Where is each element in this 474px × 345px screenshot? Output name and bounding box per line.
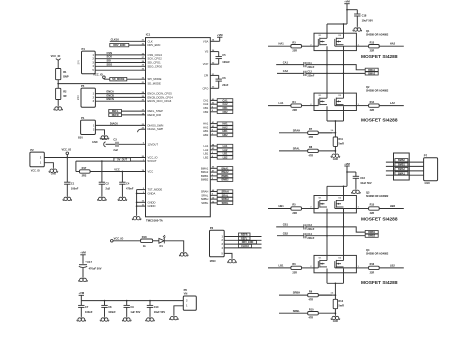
svg-text:220nF: 220nF (307, 66, 314, 69)
svg-text:SRAH: SRAH (221, 190, 228, 193)
svg-text:P3: P3 (210, 226, 214, 230)
wire 5VOUT from IC (76, 160, 146, 162)
svg-text:SCK: SCK (107, 55, 113, 59)
svg-text:CA2: CA2 (283, 69, 289, 73)
svg-text:C10: C10 (154, 305, 159, 309)
svg-text:GND: GND (425, 182, 431, 185)
svg-text:C9: C9 (130, 305, 134, 309)
svg-text:LA2: LA2 (204, 148, 209, 152)
svg-text:GND: GND (102, 138, 108, 141)
svg-text:HB2: HB2 (222, 134, 228, 137)
capacitor C7 100nF on VM rail (80, 301, 82, 306)
wire HB2 net (379, 208, 404, 210)
svg-text:47R: 47R (309, 317, 314, 320)
net label REFR boxed wire (108, 114, 145, 116)
svg-text:22R: 22R (370, 109, 375, 112)
svg-text:CB1: CB1 (283, 223, 289, 227)
svg-text:R13: R13 (370, 41, 375, 44)
wire TST_MODE and ground pins to GND (137, 189, 146, 191)
svg-text:CPI: CPI (204, 73, 209, 77)
transistor Q2 low-side dual MOSFET box (314, 93, 356, 110)
svg-text:SRBL: SRBL (201, 201, 209, 205)
svg-text:VCC_IO: VCC_IO (31, 169, 40, 172)
resistor R9 47R (308, 293, 319, 296)
wire P3 pin 4 CLK16 (224, 247, 261, 249)
wire bridge output verticals A (326, 46, 328, 98)
svg-text:REFR: REFR (112, 114, 119, 117)
svg-text:CA1: CA1 (283, 60, 289, 64)
wire P2 pin1 to ground (44, 163, 53, 168)
wire SRBL sense line (279, 312, 308, 314)
ground sense B (331, 315, 340, 320)
svg-text:R12: R12 (339, 300, 344, 303)
power +VM at VSA pin (210, 40, 219, 42)
svg-text:22R: 22R (292, 50, 297, 53)
resistor R1 DNP (56, 69, 61, 80)
svg-text:R14: R14 (370, 101, 375, 104)
svg-text:P5: P5 (81, 84, 85, 88)
svg-text:D1: D1 (160, 244, 164, 248)
power +VM above C17 (80, 254, 85, 256)
svg-text:22R: 22R (292, 212, 297, 215)
wire P4 pin 5 aux (95, 69, 145, 71)
wire P5 pin 1 ENCA (95, 93, 145, 95)
svg-text:BMA1: BMA1 (398, 172, 405, 175)
svg-text:SDO: SDO (107, 62, 113, 66)
svg-text:ENCN_DCO_CFG6: ENCN_DCO_CFG6 (148, 99, 172, 103)
svg-text:+VM: +VM (344, 162, 350, 166)
svg-text:REFR_DIR: REFR_DIR (148, 113, 161, 117)
wire P5 pin 2 ENCB (95, 96, 145, 98)
svg-text:C4: C4 (126, 181, 130, 185)
svg-text:VM: VM (184, 292, 188, 295)
svg-text:R1: R1 (63, 70, 67, 74)
svg-text:SRBH: SRBH (221, 198, 228, 201)
svg-text:22R: 22R (370, 271, 375, 274)
svg-text:47R: 47R (309, 154, 314, 157)
svg-text:C5: C5 (222, 53, 226, 57)
svg-text:220nF: 220nF (307, 228, 314, 231)
svg-text:REFL: REFL (112, 110, 119, 113)
svg-text:LB1: LB1 (204, 152, 209, 156)
wire low-side sources merge A (326, 106, 328, 121)
wire gate HA1 into box (314, 45, 318, 47)
wire bridge output verticals B (326, 209, 328, 261)
wire motor BMB1 to P7 pin 2 (386, 165, 424, 167)
ground IC (132, 215, 141, 220)
svg-text:P7: P7 (424, 153, 428, 157)
svg-text:BMB1: BMB1 (201, 174, 209, 178)
resistor R3 22R (291, 45, 302, 48)
svg-text:MOSFET SI4288: MOSFET SI4288 (361, 118, 398, 124)
svg-text:MOSFET SI4288: MOSFET SI4288 (361, 217, 398, 223)
svg-text:SI4288 OR AO4882: SI4288 OR AO4882 (366, 34, 389, 37)
svg-text:BMA1: BMA1 (201, 166, 209, 170)
svg-text:BMB1: BMB1 (368, 231, 375, 234)
wire gate LB1 into box (314, 267, 318, 269)
net label CLK16 wire to CLK pin (110, 40, 146, 42)
svg-text:SI4288 OR AO4882: SI4288 OR AO4882 (366, 253, 389, 256)
svg-text:C3: C3 (113, 138, 117, 142)
wire gate LA1 into box (314, 105, 318, 107)
svg-text:R11: R11 (339, 138, 344, 141)
svg-text:BMB2: BMB2 (398, 159, 405, 162)
svg-text:BMB2: BMB2 (221, 179, 229, 182)
ground sense A (331, 153, 340, 158)
svg-text:R18: R18 (142, 235, 147, 239)
wire P4 pin 4 SDO (95, 65, 145, 67)
svg-text:5V_OUT: 5V_OUT (117, 158, 127, 161)
svg-text:SRBL: SRBL (222, 202, 229, 205)
transistor Q1 high-side dual MOSFET box (314, 33, 356, 50)
svg-text:LA2: LA2 (390, 101, 395, 105)
svg-text:SRAH: SRAH (201, 190, 209, 194)
wire LB1 gate line (268, 267, 291, 269)
svg-text:SPI: SPI (78, 60, 81, 64)
svg-text:REFR: REFR (241, 234, 248, 237)
resistor R10 47R (308, 312, 319, 315)
svg-text:ENCB_DCEN_CFG4: ENCB_DCEN_CFG4 (148, 95, 174, 99)
net label DRV_ENN boxed on DRV_ENN pin wire (110, 44, 146, 46)
wire P3 pin 1 REFR (224, 236, 261, 238)
svg-text:CLK16: CLK16 (111, 37, 120, 41)
svg-text:BMA2: BMA2 (201, 170, 209, 174)
svg-text:CB2: CB2 (222, 111, 228, 114)
wire gate HB1 into box (314, 208, 318, 210)
wire CA1 line to BMA1 (306, 65, 365, 70)
svg-text:LB1: LB1 (279, 263, 284, 267)
svg-text:LB2: LB2 (223, 156, 228, 159)
transistor Q3 high-side dual MOSFET box (314, 196, 356, 213)
wire HA1 gate line (268, 45, 291, 47)
svg-text:VCC: VCC (114, 167, 120, 171)
capacitor C1 100nF on VCC_IO (66, 158, 68, 183)
connector P3 misc header (210, 230, 225, 257)
svg-text:22R: 22R (292, 271, 297, 274)
svg-text:ENCA: ENCA (107, 90, 114, 94)
svg-text:SDI: SDI (107, 59, 112, 63)
svg-text:SRBH: SRBH (201, 197, 209, 201)
svg-text:VCC_IO: VCC_IO (51, 54, 61, 58)
svg-text:SRAL: SRAL (201, 193, 209, 197)
svg-text:5VOUT: 5VOUT (148, 159, 157, 163)
capacitor C5 100nF between VS and VCP (210, 51, 218, 53)
svg-text:100nF: 100nF (222, 60, 230, 64)
capacitor C12 220nF bootstrap (277, 72, 304, 74)
svg-text:SI4288 OR AO4882: SI4288 OR AO4882 (366, 195, 389, 198)
capacitor C10 10uF 50V on VM rail (149, 300, 151, 302)
wire SRAL sense line (279, 150, 308, 152)
net labels on IC right pins (210, 99, 217, 101)
svg-text:SDO_CFG0: SDO_CFG0 (148, 64, 163, 68)
connector P5 encoder header (81, 88, 95, 107)
power +VM bridge B top (344, 165, 349, 167)
svg-text:CA1: CA1 (222, 99, 228, 102)
svg-text:P1: P1 (81, 116, 85, 120)
svg-text:22R: 22R (370, 212, 375, 215)
svg-text:DIAG0: DIAG0 (110, 121, 118, 125)
svg-text:GNDD: GNDD (148, 200, 156, 204)
svg-text:CB2: CB2 (203, 110, 209, 114)
svg-text:GND: GND (333, 320, 339, 323)
wire P5 pin 3 ENCN (95, 100, 145, 102)
wire VCC to IC (90, 171, 145, 173)
svg-text:47R: 47R (309, 299, 314, 302)
connector P6 VM power input (183, 296, 196, 310)
wire HB1 gate line (268, 208, 291, 210)
svg-text:C2: C2 (106, 181, 110, 185)
svg-text:CLK: CLK (148, 39, 153, 43)
svg-text:TMC5160-TA: TMC5160-TA (146, 218, 163, 222)
resistor R15 22R gate HB2 (356, 208, 368, 210)
svg-text:LB2: LB2 (204, 155, 209, 159)
svg-text:BMB1: BMB1 (221, 175, 229, 178)
wire P1 pin1 DIAG0 to IC (95, 124, 145, 126)
svg-text:+VM: +VM (217, 33, 223, 37)
LED D1 (153, 240, 160, 242)
connector P1 button (81, 120, 96, 134)
wire P4 pin 2 SCK (95, 58, 145, 60)
svg-text:GNDD: GNDD (148, 204, 156, 208)
svg-text:SD_MODE: SD_MODE (112, 78, 125, 81)
svg-text:ENCN: ENCN (107, 97, 114, 101)
capacitor C16 10uF 50V (347, 171, 356, 173)
wire P1 pin2 to ground (95, 130, 104, 135)
svg-text:CA2: CA2 (203, 102, 209, 106)
connector P7 motor output (424, 158, 438, 181)
svg-text:HB2: HB2 (390, 204, 396, 208)
svg-text:BMA1: BMA1 (368, 69, 375, 72)
svg-text:DRV_ENN: DRV_ENN (242, 241, 254, 244)
resistor R2 0R (56, 88, 61, 99)
svg-text:470nF: 470nF (126, 187, 134, 191)
svg-text:BMB2: BMB2 (368, 235, 375, 238)
svg-text:CSN_CFG3: CSN_CFG3 (148, 53, 163, 57)
capacitor C2 2u2 on 5VOUT (101, 160, 103, 162)
svg-text:ENCA_DCIN_CFG5: ENCA_DCIN_CFG5 (148, 92, 173, 96)
svg-text:LB1: LB1 (223, 153, 228, 156)
wire CB1 line to BMB1 (306, 227, 365, 232)
svg-text:+VM: +VM (344, 0, 350, 4)
wire P3 pin 3 DRV_ENN (224, 243, 261, 245)
svg-text:SRAL: SRAL (222, 194, 229, 197)
svg-text:BMA2: BMA2 (368, 72, 375, 75)
svg-text:HA1: HA1 (203, 122, 209, 126)
svg-text:SDI_CFG1: SDI_CFG1 (148, 61, 162, 65)
wire VCC_IO rail from P2 to IC (44, 157, 145, 159)
svg-text:DIAG1_SWP: DIAG1_SWP (148, 127, 164, 131)
svg-text:VCC_IO: VCC_IO (148, 155, 158, 159)
svg-text:DNP: DNP (63, 75, 69, 79)
svg-text:VCP: VCP (203, 62, 209, 66)
resistor R16 22R gate LB2 (356, 267, 368, 269)
svg-text:HA2: HA2 (222, 126, 228, 129)
svg-text:CB1: CB1 (222, 107, 228, 110)
resistor R5 22R (291, 207, 302, 210)
resistor R7 47R (308, 131, 319, 134)
svg-text:1uF 50V: 1uF 50V (130, 310, 140, 314)
svg-text:MISC: MISC (210, 260, 216, 263)
capacitor C4 470nF on VCC (122, 171, 124, 173)
svg-text:B3U: B3U (78, 137, 83, 140)
power +VM on cap rail (79, 294, 84, 296)
svg-text:10uF 50V: 10uF 50V (362, 19, 374, 23)
capacitor C14 220nF bootstrap (277, 235, 304, 237)
wire CA2 line to BMA2 (306, 72, 365, 74)
svg-text:VS: VS (205, 50, 209, 54)
svg-text:22R: 22R (370, 50, 375, 53)
wire +VM rail (81, 300, 183, 302)
svg-text:P2: P2 (30, 148, 34, 152)
svg-text:CPO: CPO (202, 86, 208, 90)
svg-text:C8: C8 (108, 305, 112, 309)
svg-text:LB2: LB2 (390, 263, 395, 267)
transistor Q4 low-side dual MOSFET box (314, 255, 356, 272)
resistor R4 22R (291, 104, 302, 107)
svg-text:VCC: VCC (148, 170, 154, 174)
wire motor BMB2 to P7 pin 1 (386, 161, 424, 163)
svg-text:SRAH: SRAH (293, 128, 300, 132)
svg-text:10uF 50V: 10uF 50V (360, 181, 372, 185)
svg-text:C18: C18 (362, 14, 367, 18)
ground C18 (353, 27, 362, 32)
svg-text:HA2: HA2 (390, 42, 396, 46)
svg-text:HB1: HB1 (279, 204, 285, 208)
wire LB2 net (379, 267, 404, 269)
svg-text:C6: C6 (222, 76, 226, 80)
svg-text:VCC_IO: VCC_IO (93, 73, 103, 77)
svg-text:SCK_CFG2: SCK_CFG2 (148, 57, 163, 61)
wire SRAH sense line (279, 132, 332, 134)
svg-text:CA1: CA1 (203, 98, 209, 102)
svg-text:22R: 22R (292, 109, 297, 112)
svg-text:CA2: CA2 (222, 103, 228, 106)
resistor R18 1k LED series (113, 240, 141, 242)
svg-text:R15: R15 (370, 204, 375, 207)
wire LED to ground (164, 241, 183, 252)
power +VM bridge A top (344, 3, 349, 5)
IC IC1 TMC5160-TA body (146, 38, 211, 217)
wire HA2 net (379, 45, 404, 47)
svg-text:BMA1: BMA1 (221, 167, 229, 170)
svg-text:MOSFET SI4288: MOSFET SI4288 (361, 54, 398, 60)
svg-text:47R: 47R (309, 136, 314, 139)
svg-text:2u2: 2u2 (106, 187, 111, 191)
svg-text:REFL_STEP: REFL_STEP (148, 109, 164, 113)
svg-text:HB1: HB1 (203, 129, 209, 133)
svg-text:R16: R16 (370, 263, 375, 266)
svg-text:CSN: CSN (107, 51, 113, 55)
svg-text:SRBL: SRBL (293, 309, 300, 313)
svg-text:5mR: 5mR (339, 305, 345, 308)
svg-text:2u2: 2u2 (113, 148, 118, 152)
wire low-side sources merge B (326, 269, 328, 284)
svg-text:470uF 50V: 470uF 50V (89, 267, 102, 271)
svg-text:+VM: +VM (78, 291, 84, 295)
svg-text:IC1: IC1 (146, 32, 151, 36)
svg-text:100nF: 100nF (71, 187, 79, 191)
wire SRBH sense line (279, 294, 332, 296)
resistor R17 2R2 5VOUT to VCC (75, 161, 77, 171)
svg-text:CLK16: CLK16 (241, 245, 249, 248)
svg-text:CB2: CB2 (283, 232, 289, 236)
wire LA2 net (379, 105, 404, 107)
svg-text:C7: C7 (85, 305, 89, 309)
wire LA1 gate line (268, 105, 291, 107)
wire P4 pin 1 CSN (95, 54, 145, 56)
wire P3 pin 5 to ground (224, 253, 232, 258)
svg-text:GND: GND (51, 173, 57, 176)
wire R1-R2 junction to SD_MODE pin (57, 80, 59, 89)
box motor net labels (394, 153, 410, 180)
svg-text:DRV_ENN: DRV_ENN (113, 44, 125, 47)
net label SD_MODE boxed on SPI_MODE wire (110, 78, 127, 81)
svg-text:SD_MODE: SD_MODE (148, 82, 161, 86)
svg-text:SRAL: SRAL (293, 147, 300, 151)
ground below R2 (57, 100, 59, 106)
net label REFL boxed wire (108, 110, 145, 112)
svg-text:100nF: 100nF (85, 310, 93, 314)
svg-text:P4: P4 (82, 47, 86, 51)
svg-text:LA1: LA1 (279, 101, 284, 105)
svg-text:LA1: LA1 (223, 145, 228, 148)
svg-text:SI4288 OR AO4882: SI4288 OR AO4882 (366, 90, 389, 93)
wire +VM rail to drains B (327, 185, 347, 187)
svg-text:0R: 0R (63, 94, 66, 98)
capacitor C13 220nF bootstrap (276, 226, 304, 228)
wire P4 pin 3 SDI (95, 62, 145, 64)
svg-text:220nF: 220nF (307, 237, 314, 240)
svg-text:BMA2: BMA2 (398, 168, 405, 171)
svg-text:BMA2: BMA2 (221, 171, 229, 174)
svg-text:LA1: LA1 (204, 144, 209, 148)
wire motor BMA2 to P7 pin 3 (386, 170, 424, 172)
svg-text:ENC: ENC (77, 95, 80, 100)
svg-text:220nF: 220nF (307, 75, 314, 78)
svg-text:DRV_ENN: DRV_ENN (148, 43, 161, 47)
resistor R14 22R gate LA2 (356, 105, 368, 107)
capacitor C3 2u2 on 12VOUT (119, 143, 146, 145)
resistor R11 5mR sense (333, 137, 337, 146)
resistor R8 47R (308, 149, 319, 152)
stub DIAG1 pin (141, 128, 146, 130)
svg-text:HA1: HA1 (222, 123, 228, 126)
ground C16 (352, 189, 361, 194)
svg-text:C16: C16 (360, 176, 365, 180)
svg-text:GND: GND (333, 158, 339, 161)
svg-text:ENCB: ENCB (107, 93, 114, 97)
resistor R6 22R (291, 266, 302, 269)
capacitor C17 470uF 50V electrolytic (79, 264, 87, 266)
svg-text:10uF 50V: 10uF 50V (154, 310, 166, 314)
resistor R13 22R gate HA2 (356, 45, 368, 47)
wire P6 pin to ground (174, 306, 183, 315)
connector P2 VCC_IO supply (30, 152, 44, 167)
svg-text:HB2: HB2 (203, 133, 209, 137)
svg-text:SPI_MODE: SPI_MODE (148, 77, 162, 81)
svg-text:GND: GND (92, 141, 98, 144)
svg-text:VCC_IO: VCC_IO (114, 236, 124, 240)
capacitor C11 220nF bootstrap (276, 64, 304, 66)
wire +VM rail to drains A (327, 23, 347, 25)
svg-text:BMB1: BMB1 (398, 163, 405, 166)
svg-text:MOSFET SI4288: MOSFET SI4288 (361, 280, 398, 286)
svg-text:BMB2: BMB2 (201, 178, 209, 182)
svg-text:REFL: REFL (241, 237, 248, 240)
svg-text:12VOUT: 12VOUT (148, 142, 159, 146)
svg-text:HA1: HA1 (279, 42, 285, 46)
svg-text:VSA: VSA (203, 39, 209, 43)
